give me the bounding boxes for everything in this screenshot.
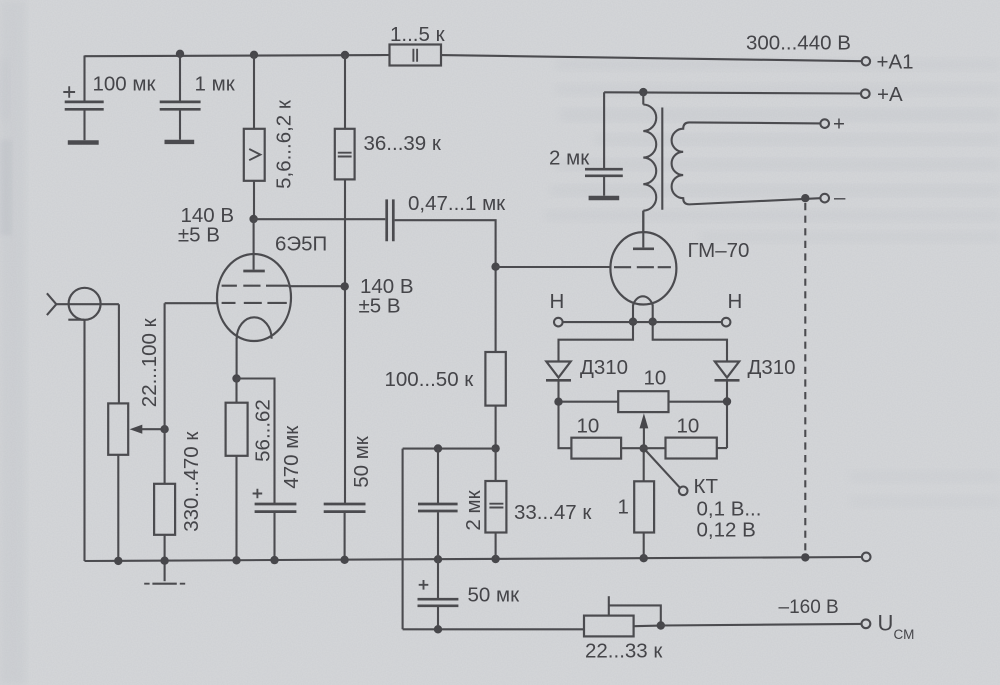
tube ГМ-70 — [610, 211, 676, 322]
capacitor 470 мк (cathode, electrolytic) — [237, 379, 297, 561]
terminal − (secondary) — [820, 194, 829, 203]
svg-text:22...100 к: 22...100 к — [138, 317, 161, 407]
svg-text:100 мк: 100 мк — [93, 73, 157, 96]
svg-text:+А1: +А1 — [877, 51, 914, 74]
transformer T1 primary — [643, 92, 656, 232]
resistor 330...470 к — [154, 429, 175, 561]
wire: riser to 22...100 к pot — [118, 304, 120, 403]
terminal: bottom rail right — [862, 553, 871, 562]
svg-text:2 мк: 2 мк — [549, 147, 590, 170]
wire: control grid to input network — [165, 302, 218, 304]
diode Д310 (left) — [546, 322, 633, 402]
transformer T1 secondary — [672, 122, 821, 204]
node: bias feed junction — [491, 444, 499, 452]
tube 6Э5П — [217, 219, 291, 378]
wire: +A1 top rail right section — [441, 55, 862, 61]
terminal Н (left) — [554, 318, 563, 327]
svg-text:50 мк: 50 мк — [468, 584, 521, 607]
rail junction nodes — [114, 557, 122, 565]
wire: pot right lead — [669, 401, 728, 403]
capacitor 0,47...1 мк (coupling) — [387, 199, 496, 352]
resistor 33...47 к (2W mark) — [485, 448, 506, 559]
node: bias bottom junction — [434, 625, 442, 633]
svg-text:0,47...1 мк: 0,47...1 мк — [408, 192, 506, 215]
svg-text:±5 В: ±5 В — [359, 295, 401, 318]
svg-text:56...62: 56...62 — [251, 399, 274, 462]
svg-text:КТ: КТ — [694, 475, 719, 498]
wire: bias bottom run — [403, 628, 584, 630]
resistor 10 (left) — [559, 402, 666, 459]
svg-text:+: + — [833, 113, 845, 136]
svg-text:5,6...6,2 к: 5,6...6,2 к — [273, 99, 296, 189]
svg-text:+А: +А — [877, 83, 903, 106]
resistor 100...50 к — [485, 352, 505, 448]
wire: heater line — [563, 321, 722, 323]
junction node on rail (5,6...6,2 к) — [250, 51, 258, 59]
svg-text:–160 В: –160 В — [779, 597, 839, 618]
node: screen grid junction — [341, 282, 349, 290]
wire: left drop to 100 мк — [83, 56, 85, 102]
transformer T1 core — [661, 108, 663, 210]
wire: bias riser (crosses rail) — [402, 449, 404, 630]
node: trimmer output junction — [657, 621, 665, 629]
node: anode of 6Э5П to coupling cap wire — [249, 215, 257, 223]
node: filament center node — [640, 444, 648, 452]
wire: screen grid to 36...39 к branch — [288, 285, 344, 287]
svg-text:0,1 В...: 0,1 В... — [697, 498, 762, 521]
junction node on rail (1 мк) — [176, 50, 184, 58]
svg-text:–: – — [834, 186, 846, 209]
node: wiper junction — [160, 425, 168, 433]
wire: +A1 top rail left section — [85, 55, 390, 56]
filament junction nodes — [629, 318, 637, 326]
junction node on rail (36...39 к) — [341, 51, 349, 59]
svg-text:22...33 к: 22...33 к — [585, 640, 663, 663]
svg-text:10: 10 — [644, 367, 667, 390]
svg-text:ГМ–70: ГМ–70 — [688, 239, 750, 262]
svg-text:Н: Н — [550, 290, 565, 313]
potentiometer 22...100 к — [108, 403, 164, 561]
wire: to Uсм terminal — [661, 624, 862, 626]
resistor 36...39 к (2W mark) — [335, 55, 355, 503]
capacitor 50 мк (bias filter, electrolytic) — [418, 559, 459, 629]
svg-text:330...470 к: 330...470 к — [180, 431, 203, 532]
node: grid of ГМ-70 junction — [491, 263, 499, 271]
input connector — [47, 288, 119, 320]
capacitor 2 мк (grid bias) — [418, 449, 458, 560]
svg-text:6Э5П: 6Э5П — [275, 233, 327, 256]
terminal +A1 — [862, 57, 870, 65]
wire: +A feed — [604, 92, 861, 93]
terminal Н (right) — [722, 318, 731, 327]
svg-text:10: 10 — [677, 415, 700, 438]
svg-text:±5 В: ±5 В — [178, 224, 220, 247]
terminal Uсм — [862, 619, 871, 628]
ground — [144, 561, 185, 584]
resistor 1 (cathode sense) — [634, 448, 654, 558]
svg-text:СМ: СМ — [894, 627, 915, 642]
capacitor 1 мк — [160, 54, 201, 142]
terminal +A — [861, 89, 870, 98]
svg-text:1 мк: 1 мк — [195, 73, 236, 96]
potentiometer 10 (hum balance) — [618, 391, 668, 447]
capacitor 2 мк (anode bypass) — [585, 92, 623, 198]
wire: input shield down to common rail — [83, 320, 85, 561]
trimmer 22...33 к (rheostat tap) — [584, 596, 661, 636]
svg-text:470 мк: 470 мк — [280, 425, 303, 489]
svg-text:36...39 к: 36...39 к — [364, 132, 442, 155]
node: secondary minus junction — [801, 194, 809, 202]
svg-text:10: 10 — [577, 415, 600, 438]
resistor 56...62 — [226, 379, 248, 561]
wire: common bottom rail — [85, 557, 862, 561]
terminal + (secondary) — [820, 119, 829, 128]
svg-text:Д310: Д310 — [748, 356, 796, 379]
wire: bias feed — [403, 448, 496, 450]
diode Д310 (right) — [653, 322, 740, 402]
resistor 1...5 к (2W mark II) — [390, 45, 442, 66]
capacitor 50 мк (screen) — [324, 504, 366, 560]
resistor 5,6...6,2 к (5W mark V) — [244, 55, 265, 219]
svg-text:1...5 к: 1...5 к — [390, 23, 446, 46]
node: +A junction — [639, 88, 647, 96]
svg-text:50 мк: 50 мк — [350, 435, 373, 488]
svg-text:0,12 В: 0,12 В — [697, 519, 756, 542]
resistor 10 (right) — [666, 402, 728, 459]
wire: grid wire to ГМ-70 — [496, 266, 611, 268]
svg-text:U: U — [878, 611, 894, 636]
svg-text:2 мк: 2 мк — [462, 489, 485, 530]
svg-text:300...440 В: 300...440 В — [746, 32, 851, 55]
svg-text:Д310: Д310 — [580, 356, 628, 379]
node: cathode junction 6Э5П — [232, 374, 240, 382]
wire: dashed feedback line — [804, 203, 806, 554]
test point КТ — [646, 451, 688, 496]
capacitor 100 мк (electrolytic, + on left) — [63, 86, 103, 142]
svg-text:1: 1 — [618, 496, 629, 519]
wire: pot left lead — [559, 401, 619, 403]
wire: wiper riser to grid wire — [164, 303, 166, 429]
svg-text:33...47 к: 33...47 к — [514, 501, 592, 524]
svg-text:100...50 к: 100...50 к — [385, 368, 475, 391]
svg-text:Н: Н — [728, 290, 743, 313]
